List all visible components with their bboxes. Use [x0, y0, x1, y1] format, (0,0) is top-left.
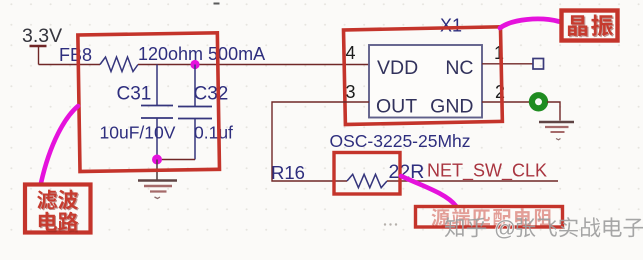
annotation box: filter circuit: [78, 33, 220, 172]
svg-text:@: @: [494, 216, 516, 241]
resistor R16: [347, 174, 387, 187]
annotation box: series resistor: [334, 153, 400, 195]
C32 designator label: [194, 84, 229, 105]
svg-text:120ohm 500mA: 120ohm 500mA: [138, 44, 265, 64]
no-connect terminal square: [533, 59, 544, 70]
R16 value label 22R: [389, 161, 425, 183]
wire: R16 to NET_SW_CLK: [387, 180, 558, 182]
ferrite bead FB8: [100, 57, 138, 72]
capacitor C31: [141, 65, 173, 160]
svg-text:C32: C32: [194, 84, 229, 105]
via/test-point (green donut): [532, 95, 545, 108]
wire: X1 GND pin 2 to via: [482, 101, 530, 103]
junction dot (magenta) at C32 tap: [190, 60, 199, 69]
pin name GND: [430, 96, 473, 118]
svg-text:GND: GND: [430, 96, 473, 118]
C31 designator label: [117, 84, 152, 105]
FB8 designator label: [59, 45, 92, 65]
power net label 3.3V: [22, 25, 62, 47]
svg-text:OSC-3225-25Mhz: OSC-3225-25Mhz: [330, 131, 471, 151]
wire: C32 bottom to ground junction: [157, 159, 195, 161]
pin number 1: [494, 43, 504, 63]
pin number 3: [345, 82, 355, 102]
wire: 3.3V to FB8: [39, 64, 101, 66]
svg-text:R16: R16: [271, 162, 305, 183]
pin name OUT: [376, 96, 417, 118]
watermark dots: [384, 223, 397, 225]
power port 3.3V (bar symbol): [30, 46, 47, 65]
capacitor C32: [178, 65, 212, 160]
svg-text:VDD: VDD: [377, 57, 418, 79]
X1 value label OSC-3225-25Mhz: [330, 131, 471, 151]
annotation label box 源端匹配电阻: [416, 207, 563, 228]
callout curve to source-termination label: [401, 176, 456, 206]
FB8 value label 120ohm 500mA: [138, 44, 265, 64]
watermark 知乎 @张飞实战电子: [445, 216, 643, 241]
pin number 2: [495, 82, 505, 102]
oscillator X1 body: [369, 45, 482, 118]
svg-text:OUT: OUT: [376, 96, 417, 118]
wire: X1 OUT pin 3 to R16: [272, 102, 369, 181]
junction dot (magenta) at ground node: [152, 155, 162, 165]
svg-text:4: 4: [345, 43, 355, 63]
svg-text:FB8: FB8: [59, 45, 92, 65]
svg-text:10uF/10V: 10uF/10V: [100, 123, 176, 143]
pin name VDD: [377, 57, 418, 79]
callout curve to crystal label: [500, 19, 559, 28]
pin name NC: [445, 57, 473, 79]
svg-text:3: 3: [345, 82, 355, 102]
R16 designator label: [271, 162, 305, 183]
wire: via to ground GND2: [547, 102, 560, 121]
C31 value label 10uF/10V: [100, 123, 176, 143]
net label NET_SW_CLK: [427, 161, 547, 182]
svg-text:C31: C31: [117, 84, 152, 105]
annotation label box 滤波电路: [25, 185, 91, 233]
svg-text:3.3V: 3.3V: [22, 25, 62, 47]
svg-text:X1: X1: [440, 16, 462, 36]
svg-text:NC: NC: [445, 57, 473, 79]
annotation box: oscillator: [344, 27, 503, 125]
ground GND1 (filter): [138, 160, 177, 199]
callout curve to filter label: [41, 106, 78, 183]
X1 designator label: [440, 16, 462, 36]
top edge tick mark: [214, 3, 220, 5]
ground GND2: [539, 122, 574, 140]
pin number 4: [345, 43, 355, 63]
svg-text:0.1uf: 0.1uf: [194, 123, 233, 143]
wire: FB8 to X1 VDD pin 4: [138, 64, 369, 66]
annotation label box 晶振: [562, 11, 618, 41]
wire: X1 NC pin 1 stub: [482, 63, 533, 65]
C32 value label 0.1uf: [194, 123, 233, 143]
svg-text:NET_SW_CLK: NET_SW_CLK: [427, 161, 547, 182]
